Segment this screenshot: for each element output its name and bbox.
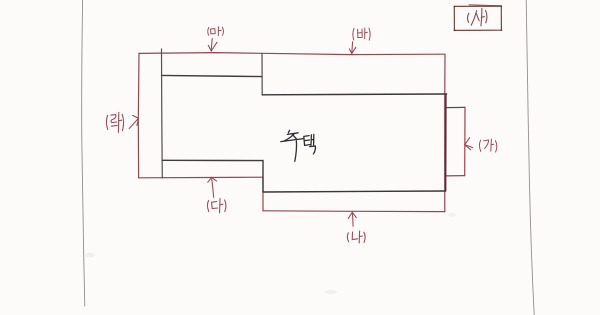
label (마) <box>208 27 224 36</box>
wall outline: left-section bottom edge <box>162 159 263 161</box>
box for (사) <box>454 5 503 31</box>
label (바) <box>353 28 370 40</box>
arrow for (가) <box>465 138 473 150</box>
label (나) <box>347 231 365 243</box>
wall outline: right-section top edge <box>262 93 446 96</box>
red eave outline: middle step vertical <box>262 177 264 211</box>
label (다) <box>207 199 226 213</box>
arrow for (바) <box>349 42 355 54</box>
arrow for (나) <box>348 212 356 226</box>
arrow for (라) <box>129 115 138 128</box>
label (사) <box>468 9 487 26</box>
page border left <box>82 0 85 306</box>
wall outline: right edge <box>445 94 447 191</box>
red eave outline: top line <box>139 53 445 55</box>
page border right <box>526 0 534 315</box>
wall outline: left edge with extensions to eave lines <box>161 49 164 178</box>
label (라) <box>106 112 123 132</box>
wall outline: right-section bottom edge <box>263 191 446 192</box>
faint scan smudges <box>85 213 456 294</box>
red eave outline: left line <box>137 53 140 177</box>
house label 주택 (handwritten) <box>281 130 316 161</box>
wall/extension vertical at step x=262 (top) <box>261 54 263 96</box>
arrow for (다) <box>208 177 217 197</box>
arrow for (마) <box>208 39 217 52</box>
red eave notch right <box>464 107 466 175</box>
red eave notch bottom <box>445 175 465 177</box>
label (가) <box>479 139 496 152</box>
red eave notch top (가 step) <box>445 106 465 108</box>
red eave outline: bottom-right line <box>263 210 445 213</box>
red eave outline: bottom-left line <box>139 176 263 179</box>
red eave outline: right line <box>444 54 446 211</box>
wall outline: middle step vertical (bottom) <box>262 161 264 193</box>
wall outline: left-section top edge <box>161 75 262 76</box>
